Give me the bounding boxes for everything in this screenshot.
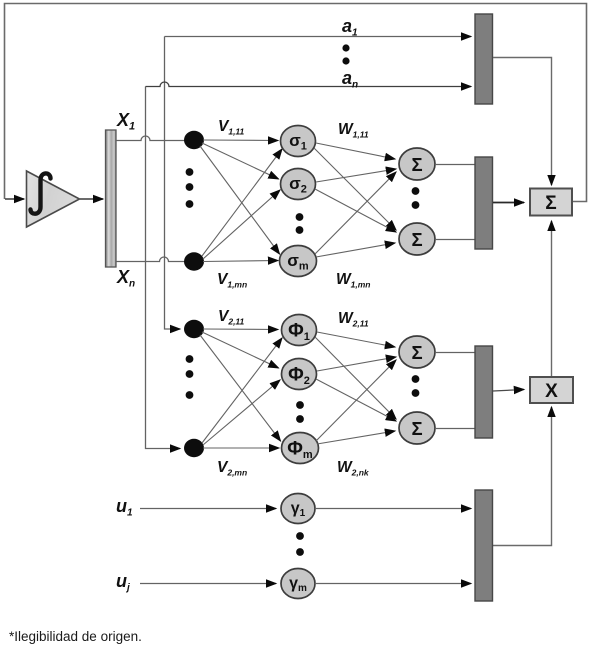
node phi input 1 (black dot)	[184, 320, 204, 338]
wire phim to sum3	[316, 360, 396, 441]
sum box	[530, 189, 572, 216]
svg-text:*Ilegibilidad de origen.: *Ilegibilidad de origen.	[9, 629, 142, 644]
wire bar2 to sum box	[493, 202, 524, 204]
wire Xn with hop over vertical line	[116, 257, 185, 262]
wire gammam to bar4	[315, 583, 471, 585]
wire input1 to sigmam	[200, 146, 280, 254]
bar gamma output	[475, 490, 493, 601]
wire sigmam to sum1	[315, 172, 396, 254]
svg-text:V1,mn: V1,mn	[217, 271, 247, 290]
wire an to memory bar with hop	[146, 82, 472, 86]
node input n (black dot)	[184, 252, 204, 270]
wire inputn to sigma1	[202, 149, 282, 256]
wire u1 to gamma1	[140, 508, 276, 510]
sum circle 1	[399, 148, 435, 180]
wire phi-in2 to phi1	[202, 338, 282, 443]
svg-text:Σ: Σ	[411, 342, 422, 363]
neuron phi2	[282, 359, 317, 390]
svg-text:Σ: Σ	[411, 418, 422, 439]
wire top bar to sum box top	[493, 58, 552, 186]
bar network1 output	[475, 157, 493, 249]
wire inputn to sigmam	[203, 261, 278, 262]
svg-text:an: an	[342, 68, 358, 91]
neuron phi1	[282, 315, 317, 346]
wire phi-in1 to phim	[200, 335, 281, 441]
wire bar3 to X box	[493, 390, 524, 392]
neuron sigma2	[281, 169, 316, 200]
dots between phi inputs	[186, 355, 194, 399]
wire gamma bar to X box bottom	[493, 407, 552, 546]
neuron gammam	[281, 569, 315, 599]
wire sum1 to bar2	[435, 164, 475, 166]
wire sigma1 to sum1	[316, 143, 395, 159]
wire uj to gammam	[140, 583, 276, 585]
node phi input 2 (black dot)	[184, 439, 204, 457]
wire a1 to memory bar	[165, 36, 472, 38]
wire input1 to sigma2	[202, 143, 279, 179]
node input 1 (black dot)	[184, 131, 204, 149]
dots between input nodes	[186, 168, 194, 208]
svg-text:X: X	[545, 381, 558, 402]
neuron gamma1	[281, 494, 315, 524]
wire phi2 to sum4	[316, 379, 396, 421]
wire input1 to sigma1	[203, 139, 278, 142]
wire sigma2 to sum2	[315, 189, 396, 232]
bar top (a memory bar)	[475, 14, 493, 104]
wire phi-in2 to phi2	[203, 380, 280, 445]
svg-text:Σ: Σ	[545, 193, 556, 214]
svg-text:Σ: Σ	[411, 229, 422, 250]
svg-text:W1,mn: W1,mn	[336, 271, 370, 290]
X box (product)	[530, 377, 573, 403]
dots between sum circles	[412, 187, 420, 209]
neuron sigmam	[280, 246, 317, 277]
wire sum4 to bar3	[435, 428, 475, 430]
svg-text:W2,nk: W2,nk	[337, 459, 370, 478]
wire inputn to sigma2	[203, 190, 280, 259]
dots between sigma2 and sigmam	[296, 213, 304, 234]
svg-text:W1,11: W1,11	[338, 121, 369, 140]
sum circle 3	[399, 336, 435, 368]
svg-text:V2,mn: V2,mn	[217, 459, 247, 478]
sum circle 2	[399, 223, 435, 255]
dots between a lines	[342, 44, 349, 64]
op-amp integrator U1 (triangle)	[27, 171, 80, 227]
neuron phim	[282, 433, 319, 464]
dots between sum3 sum4	[412, 375, 420, 397]
wire feedback loop (sum output, right side, top, left side)	[5, 4, 587, 202]
wire phi-in1 to phi1	[203, 328, 278, 331]
wire feedback into integrator with arrow	[5, 198, 24, 200]
sum circle 4	[399, 412, 435, 444]
dots between phi2 and phim	[296, 401, 304, 423]
wire vertical B (a1 tap down to phi input 1)	[165, 37, 181, 330]
wire sigma1 to sum2	[314, 148, 396, 230]
wire vertical A (an tap down to phi input 2)	[146, 87, 181, 449]
svg-text:X1: X1	[116, 110, 135, 133]
wire gamma1 to bar4	[315, 508, 471, 510]
wire sigmam to sum2	[316, 243, 395, 257]
wire X1 with hop over vertical line	[116, 136, 185, 140]
wire sum2 to bar2	[435, 239, 475, 241]
wire sum3 to bar3	[435, 352, 475, 354]
wire phim to sum4	[317, 431, 395, 444]
svg-text:V2,11: V2,11	[218, 308, 245, 327]
wire phi-in1 to phi2	[202, 332, 279, 368]
wire phi2 to sum3	[317, 357, 396, 371]
input distribution bar	[106, 130, 117, 267]
wire phi-in2 to phim	[203, 447, 279, 449]
neuron sigma1	[281, 126, 316, 157]
bar network2 output	[475, 346, 493, 438]
wire X box output up to sum box bottom	[551, 221, 553, 377]
svg-text:uj: uj	[116, 571, 130, 594]
svg-text:u1: u1	[116, 496, 133, 519]
dots between gamma circles	[296, 532, 304, 556]
wire phi1 to sum3	[317, 332, 395, 347]
svg-text:W2,11: W2,11	[338, 310, 369, 329]
svg-text:a1: a1	[342, 16, 358, 39]
integrator symbol	[31, 173, 51, 213]
wire sigma2 to sum1	[316, 169, 396, 182]
svg-text:Σ: Σ	[411, 154, 422, 175]
wire integrator output arrow to input bar	[80, 198, 103, 200]
svg-text:Xn: Xn	[116, 267, 135, 290]
wire phi1 to sum4	[315, 337, 396, 419]
svg-text:V1,11: V1,11	[218, 118, 245, 137]
